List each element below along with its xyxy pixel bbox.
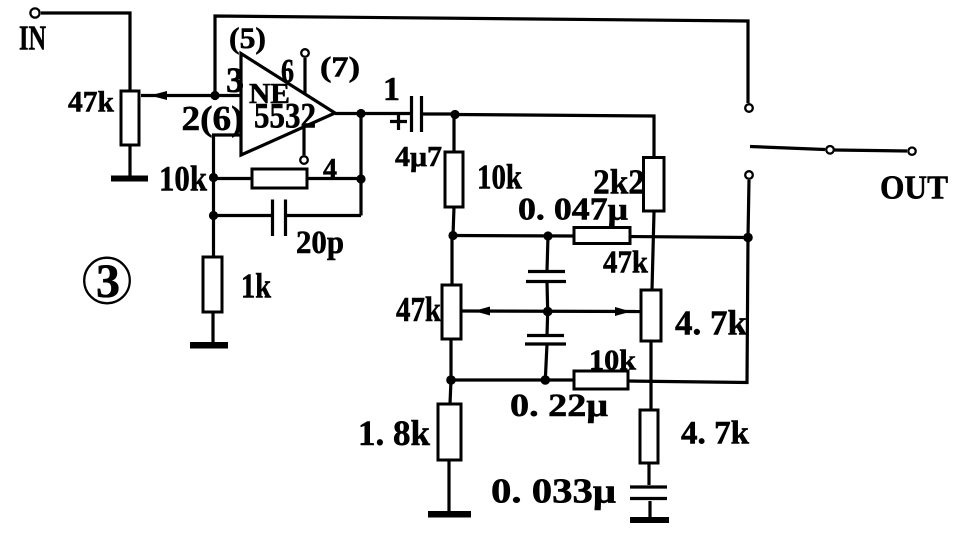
wire row G to 47k resistor <box>453 234 574 238</box>
node E (output) <box>356 109 365 118</box>
svg-text:4. 7k: 4. 7k <box>681 416 750 452</box>
svg-text:0. 047μ: 0. 047μ <box>518 191 628 227</box>
wire IN to pot top <box>41 13 130 91</box>
wire 1.8k to ground <box>447 460 450 511</box>
svg-text:4μ7: 4μ7 <box>395 142 442 173</box>
wire node G down to bass pot <box>450 236 453 286</box>
wire pot bottom to ground <box>128 145 131 176</box>
svg-text:3: 3 <box>226 60 244 100</box>
svg-text:OUT: OUT <box>880 170 948 207</box>
wire 4.7k to 0.033u cap <box>647 463 650 485</box>
node D <box>356 174 365 183</box>
svg-text:2(6): 2(6) <box>182 99 244 138</box>
node L <box>541 375 551 385</box>
pin 6 power stem <box>303 58 306 93</box>
svg-text:1. 8k: 1. 8k <box>358 413 430 453</box>
potentiometer 47k (bass) <box>442 285 461 339</box>
node G <box>448 231 457 240</box>
ground (0.033u) <box>630 517 669 523</box>
svg-text:5532: 5532 <box>254 96 316 136</box>
wiper arrowhead left (into 47k pot) <box>474 307 490 316</box>
switch arm <box>750 147 825 150</box>
potentiometer 4.7k (treble) <box>641 290 661 341</box>
svg-text:10k: 10k <box>159 159 207 199</box>
capacitor 0.033u plates <box>630 487 667 499</box>
wire node F down to 10k <box>452 115 455 153</box>
resistor 1k <box>203 257 222 312</box>
svg-text:10k: 10k <box>589 346 636 377</box>
svg-text:3: 3 <box>96 255 120 308</box>
wire 47k resistor to node J <box>630 237 748 238</box>
wire 0.22u to node L <box>545 344 547 380</box>
wire pivot to OUT terminal <box>835 150 908 151</box>
wire 2k2 bottom to treble pot top <box>652 212 654 290</box>
resistor 10k (feedback) <box>252 169 307 188</box>
resistor 4.7k (lower) <box>640 410 658 463</box>
OUT terminal <box>908 148 915 155</box>
wire 20p row <box>214 214 362 217</box>
resistor 10k (vertical) <box>445 152 463 207</box>
capacitor 20p <box>273 200 286 237</box>
node A (pin3 junction) <box>210 91 219 100</box>
capacitor 0.22u plates <box>525 336 566 345</box>
switch lower contact <box>745 171 753 179</box>
wire lower contact to node J <box>748 180 749 238</box>
wire node H down to 0.047u cap <box>547 236 548 271</box>
pin 4 power terminal <box>300 156 308 164</box>
svg-text:(5): (5) <box>229 22 266 55</box>
potentiometer 47k (input level) <box>121 91 139 145</box>
wire cap to node K <box>545 282 549 312</box>
wiper arrowhead <box>150 91 167 100</box>
switch pivot <box>826 146 834 154</box>
node K (wiper row) <box>543 307 553 317</box>
capacitor 4u7 plus sign <box>390 113 407 130</box>
resistor 10k (bottom horizontal) <box>574 371 628 389</box>
svg-text:1: 1 <box>383 71 400 108</box>
wire node A to op-amp pin 3 <box>215 94 241 97</box>
svg-text:20p: 20p <box>296 225 344 261</box>
wire cap to node F <box>423 112 455 115</box>
capacitor 4u7 plates <box>412 96 422 132</box>
pin 4 power stem <box>302 128 305 155</box>
svg-text:0. 033μ: 0. 033μ <box>491 472 616 511</box>
wire wiper row <box>461 309 641 313</box>
wire node M to 1.8k <box>450 380 451 404</box>
svg-text:0. 22μ: 0. 22μ <box>510 388 608 424</box>
wire pot wiper to node A <box>141 94 215 97</box>
resistor 2k2 <box>644 158 665 212</box>
switch upper contact <box>745 104 753 112</box>
wire 10k bottom to node G <box>453 207 454 236</box>
svg-text:4. 7k: 4. 7k <box>675 304 748 343</box>
wire pin 2 down <box>214 135 242 257</box>
wire feedback resistor to node D <box>307 177 361 180</box>
wire node F to 2k2 top <box>455 115 654 157</box>
resistor 47k (horizontal) <box>574 228 630 244</box>
wire bass pot bottom to node M <box>449 339 452 380</box>
wire 0.033u to ground <box>648 501 651 517</box>
wire right vertical node J to bottom row <box>628 238 748 383</box>
op-amp NE5532 <box>241 54 335 156</box>
wire treble pot bottom down <box>649 341 652 410</box>
svg-text:IN: IN <box>19 19 46 58</box>
svg-text:(7): (7) <box>320 53 360 84</box>
ground (1k) <box>190 342 228 349</box>
wiper arrowhead right (into 4.7k pot) <box>615 307 631 316</box>
resistor 1.8k <box>438 404 461 460</box>
node J <box>743 233 753 243</box>
node M <box>446 375 456 385</box>
wire node A up and top rail to switch upper contact <box>215 16 748 103</box>
node B (inverting input) <box>209 173 218 182</box>
svg-text:47k: 47k <box>603 244 648 280</box>
node F <box>450 110 459 119</box>
wire node B to feedback resistor <box>214 177 253 180</box>
node H <box>543 231 552 240</box>
svg-text:1k: 1k <box>241 267 271 306</box>
wire op-amp output to coupling cap <box>335 112 410 115</box>
node C (20p row left) <box>209 211 218 220</box>
ground (1.8k) <box>428 511 471 518</box>
svg-text:4: 4 <box>323 154 337 185</box>
IN terminal <box>30 8 39 17</box>
ground (input pot) <box>111 176 148 182</box>
svg-text:6: 6 <box>281 53 294 90</box>
svg-text:47k: 47k <box>68 86 114 119</box>
svg-text:10k: 10k <box>477 158 522 197</box>
wire bottom row <box>451 378 574 381</box>
wire output vertical <box>359 114 362 216</box>
wire 1k to ground <box>211 312 214 342</box>
circled figure number 3 <box>84 258 130 304</box>
svg-text:47k: 47k <box>396 290 441 329</box>
wire node K to 0.22u cap <box>545 312 549 336</box>
pin 6 power terminal <box>301 49 309 57</box>
capacitor 0.047u plates <box>526 272 566 282</box>
